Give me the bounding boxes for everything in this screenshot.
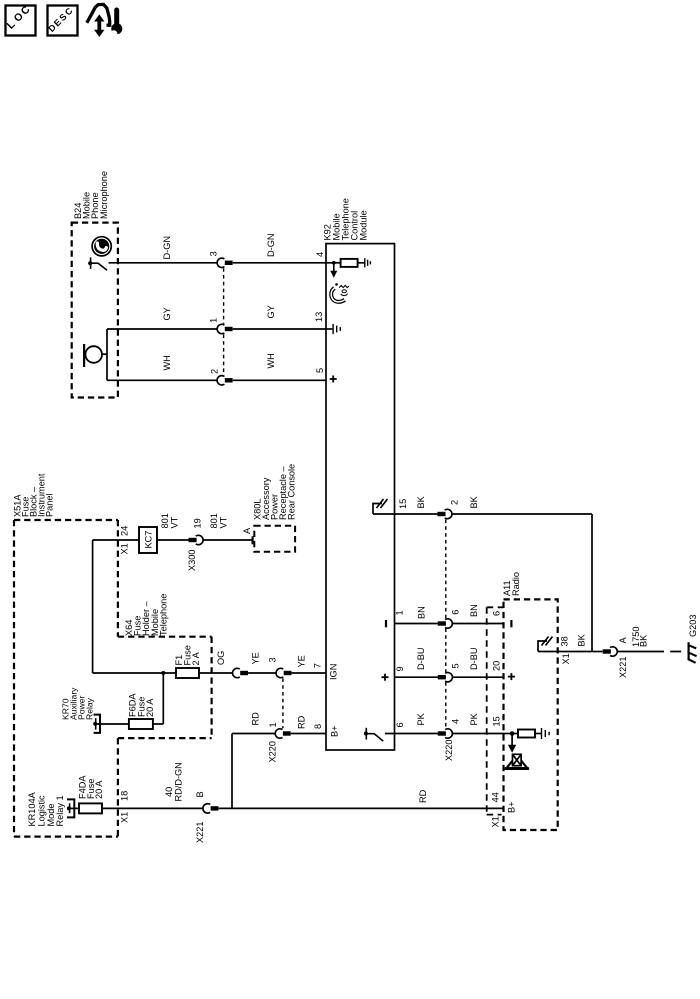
svg-text:1: 1 bbox=[395, 610, 405, 615]
connector X300 pin 19 bbox=[187, 518, 203, 571]
plus sign inside A11 (pin 20) bbox=[508, 673, 515, 680]
connector pin 3 (B24 pigtail) bbox=[209, 251, 233, 267]
svg-text:20: 20 bbox=[492, 661, 502, 671]
svg-text:X1: X1 bbox=[491, 816, 501, 827]
minus sign inside K92 (pin 1) bbox=[385, 620, 387, 627]
wire WH to K92 pin 5 bbox=[233, 353, 326, 380]
svg-text:4: 4 bbox=[451, 719, 461, 724]
phone icon in B24 bbox=[92, 237, 111, 256]
svg-text:KC7: KC7 bbox=[144, 531, 154, 549]
svg-text:GY: GY bbox=[266, 305, 276, 318]
svg-text:801: 801 bbox=[160, 513, 170, 528]
microphone switch in B24 bbox=[88, 257, 107, 270]
svg-text:6: 6 bbox=[395, 722, 405, 727]
svg-text:2: 2 bbox=[210, 369, 220, 374]
wire RD from X221 junction up to connector X220 pin 1 bbox=[232, 712, 275, 809]
wire YE to connector X220 pin 3 bbox=[248, 652, 276, 673]
wire D-BU to radio A11 pin 20 bbox=[452, 648, 503, 678]
svg-text:X1: X1 bbox=[561, 653, 571, 664]
svg-text:WH: WH bbox=[266, 353, 276, 368]
svg-text:X1: X1 bbox=[120, 812, 130, 823]
svg-text:YE: YE bbox=[297, 655, 307, 667]
svg-text:3: 3 bbox=[268, 657, 278, 662]
svg-text:18: 18 bbox=[120, 791, 130, 801]
dashed connector link (B24 pigtail) bbox=[223, 268, 225, 375]
connector X220 pin 2 bbox=[437, 500, 459, 519]
case ground symbol inside K92 (pin 15) bbox=[373, 499, 388, 514]
svg-text:801: 801 bbox=[209, 513, 219, 528]
wire WH from B24 to in-line connector bbox=[107, 355, 217, 380]
wire BK from connector to X221 pin A bbox=[452, 495, 592, 651]
wire BK from K92 pin 15 to connector X220 pin 2 bbox=[373, 495, 438, 514]
ground symbol inside K92 (pin 4) bbox=[365, 258, 371, 267]
svg-text:RD: RD bbox=[297, 715, 307, 729]
connector X220 pin 1 bbox=[268, 722, 291, 762]
svg-text:Panel: Panel bbox=[45, 494, 55, 518]
relay KR70 Auxiliary Power Relay contact bbox=[61, 687, 129, 733]
wire 801 VT from KC7 to X300 bbox=[157, 513, 189, 540]
switch symbol inside K92 (pin 6) bbox=[364, 728, 383, 741]
component X80L Accessory Power Receptacle Rear Console (dashed box) bbox=[252, 464, 296, 552]
svg-text:6: 6 bbox=[451, 610, 461, 615]
fuse F1 2 A bbox=[174, 645, 201, 678]
wire BK to connector X221 pin A bbox=[592, 651, 603, 653]
connector X220 pin 4 bbox=[438, 719, 461, 761]
svg-text:5: 5 bbox=[315, 368, 325, 373]
svg-text:A: A bbox=[242, 527, 252, 534]
svg-text:1: 1 bbox=[209, 318, 219, 323]
svg-text:GY: GY bbox=[162, 307, 172, 320]
svg-text:X300: X300 bbox=[187, 550, 197, 571]
svg-text:3: 3 bbox=[209, 251, 219, 256]
svg-text:15: 15 bbox=[398, 499, 408, 509]
dashed connector link X220 (pins 2-6-5-4) bbox=[445, 520, 447, 729]
wire D-GN from B24 switch to in-line connector bbox=[109, 236, 218, 263]
connector X1 strip of A11 Radio (dashed) bbox=[487, 607, 504, 827]
connector pin 1 (B24 pigtail) bbox=[209, 318, 233, 334]
svg-text:B: B bbox=[195, 791, 205, 797]
connector X220 pin 5 bbox=[438, 663, 461, 682]
connector X220 pin 6 bbox=[438, 610, 461, 629]
wire RD to K92 pin 8 B+ bbox=[291, 715, 340, 737]
svg-text:24: 24 bbox=[120, 526, 130, 536]
wire from X51A to KC7 bbox=[93, 526, 139, 673]
resistor inside A11 (pin 15) bbox=[504, 730, 542, 738]
svg-text:5: 5 bbox=[451, 663, 461, 668]
svg-text:Radio: Radio bbox=[511, 572, 521, 596]
svg-text:RD: RD bbox=[418, 789, 428, 803]
node junction at F1/F6DA branch bbox=[153, 671, 165, 724]
phone handset icon inside K92 bbox=[331, 283, 349, 302]
service lift icon bbox=[87, 4, 123, 37]
fuse F6DA 20 A bbox=[128, 693, 155, 729]
connector pin 2 (B24 pigtail) bbox=[210, 369, 233, 385]
svg-text:BN: BN bbox=[417, 606, 427, 619]
svg-text:38: 38 bbox=[560, 636, 570, 646]
wire GY to K92 pin 13 bbox=[233, 305, 326, 329]
arrow down to speaker inside A11 bbox=[508, 734, 516, 753]
relay KR104A Logistic Mode Relay 1 contact bbox=[27, 791, 79, 826]
wire PK from K92 pin 6 to connector X220 pin 4 bbox=[385, 712, 438, 733]
svg-text:VT: VT bbox=[219, 516, 229, 528]
svg-text:B+: B+ bbox=[507, 802, 517, 814]
wire BN to radio A11 pin 6 bbox=[452, 604, 503, 623]
svg-text:BN: BN bbox=[469, 604, 479, 617]
connector X221 pin A bbox=[603, 637, 628, 679]
resistor inside K92 (pin 4) bbox=[341, 259, 365, 267]
module K92 Mobile Telephone Control Module bbox=[323, 198, 395, 750]
wire YE to K92 pin 7 IGN bbox=[292, 655, 339, 680]
wire 801 VT from X300 to X80L pin A bbox=[203, 513, 253, 544]
svg-text:2 A: 2 A bbox=[191, 651, 201, 665]
microphone transducer in B24 bbox=[84, 329, 107, 380]
svg-text:BK: BK bbox=[469, 495, 479, 508]
wire 40 RD/D-GN from F4DA to connector X221 pin B bbox=[102, 762, 205, 823]
svg-text:40: 40 bbox=[164, 787, 174, 797]
svg-text:YE: YE bbox=[251, 652, 261, 664]
svg-text:Telephone: Telephone bbox=[158, 594, 168, 636]
svg-text:D-BU: D-BU bbox=[469, 648, 479, 670]
svg-text:Microphone: Microphone bbox=[99, 171, 109, 219]
wire BK from A11 pin 38 to X221 junction bbox=[538, 633, 592, 664]
wire BN from K92 pin 1 to connector X220 pin 6 bbox=[395, 606, 439, 623]
connector X221 pin B bbox=[195, 804, 218, 843]
svg-text:BK: BK bbox=[577, 633, 587, 646]
wire D-GN to K92 pin 4 bbox=[233, 234, 326, 263]
fuse block X51A Instrument Panel (dashed box) bbox=[13, 473, 118, 836]
ground G203 bbox=[688, 615, 698, 663]
svg-text:A: A bbox=[618, 637, 628, 644]
wire GY from B24 to in-line connector bbox=[107, 307, 217, 329]
svg-text:44: 44 bbox=[491, 792, 501, 802]
wire 1750 BK to ground G203 (dashed) bbox=[617, 627, 688, 652]
svg-text:WH: WH bbox=[162, 355, 172, 370]
svg-text:2: 2 bbox=[450, 500, 460, 505]
svg-text:RD/D-GN: RD/D-GN bbox=[174, 762, 184, 801]
node K92 pin 4 junction bbox=[326, 261, 341, 265]
minus sign inside A11 (pin 6) bbox=[510, 620, 512, 627]
dashed connector link X220 (pins 3-1) bbox=[282, 678, 284, 728]
node junction inside A11 (pin 15) bbox=[510, 731, 515, 736]
speaker symbol inside A11 bbox=[505, 754, 529, 768]
wire D-BU from K92 pin 9 to connector X220 pin 5 bbox=[395, 648, 439, 678]
svg-text:B+: B+ bbox=[330, 726, 340, 738]
DESC legend box bbox=[46, 5, 77, 35]
svg-text:X220: X220 bbox=[268, 741, 278, 762]
svg-text:G203: G203 bbox=[688, 615, 698, 637]
svg-text:PK: PK bbox=[469, 712, 479, 725]
connector X220 pin 3 bbox=[268, 657, 292, 677]
component A11 Radio (dashed box) bbox=[502, 572, 558, 830]
ground symbol inside K92 (pin 13) bbox=[326, 324, 340, 334]
svg-text:Rear Console: Rear Console bbox=[286, 464, 296, 520]
component KC7 bbox=[139, 527, 157, 553]
wire OG from F1 fuse to in-line connector bbox=[199, 651, 233, 673]
case ground symbol inside A11 (pin 38) bbox=[538, 637, 553, 652]
svg-text:20 A: 20 A bbox=[94, 780, 104, 799]
svg-text:20 A: 20 A bbox=[145, 698, 155, 717]
svg-text:RD: RD bbox=[251, 712, 261, 726]
fuse F4DA 20 A bbox=[78, 775, 105, 814]
svg-text:6: 6 bbox=[492, 611, 502, 616]
svg-text:BK: BK bbox=[416, 495, 426, 508]
svg-text:Relay 1: Relay 1 bbox=[55, 795, 65, 826]
svg-text:X220: X220 bbox=[444, 740, 454, 761]
svg-text:OG: OG bbox=[216, 651, 226, 665]
svg-text:4: 4 bbox=[315, 252, 325, 257]
ground symbol inside A11 bbox=[542, 728, 550, 739]
plus sign inside K92 (pin 5) bbox=[330, 376, 337, 383]
svg-text:D-GN: D-GN bbox=[162, 236, 172, 259]
svg-text:D-BU: D-BU bbox=[416, 648, 426, 670]
svg-text:D-GN: D-GN bbox=[266, 234, 276, 257]
svg-text:19: 19 bbox=[193, 518, 203, 528]
svg-text:8: 8 bbox=[313, 724, 323, 729]
arrow down from pin 4 node bbox=[330, 263, 337, 278]
svg-text:1: 1 bbox=[268, 722, 278, 727]
svg-text:X221: X221 bbox=[618, 657, 628, 678]
LOC legend box bbox=[5, 3, 36, 35]
svg-text:BK: BK bbox=[639, 634, 649, 647]
plus sign inside K92 (pin 9) bbox=[382, 674, 389, 681]
wire PK to radio A11 pin 15 bbox=[452, 712, 503, 733]
svg-text:PK: PK bbox=[416, 712, 426, 725]
svg-text:7: 7 bbox=[313, 663, 323, 668]
in-line connector (fuse holder pigtail) bbox=[232, 668, 248, 677]
svg-text:Module: Module bbox=[359, 210, 369, 240]
wire RD from X221 to A11 pin 44 B+ bbox=[219, 789, 517, 813]
wire from X51A feed to F1 fuse bbox=[93, 672, 176, 674]
svg-text:Relay: Relay bbox=[85, 697, 95, 720]
svg-text:IGN: IGN bbox=[329, 664, 339, 680]
svg-text:13: 13 bbox=[314, 312, 324, 322]
svg-text:15: 15 bbox=[492, 716, 502, 726]
component B24 Mobile Phone Microphone (dashed box) bbox=[72, 171, 118, 398]
svg-text:9: 9 bbox=[395, 666, 405, 671]
svg-text:X1: X1 bbox=[120, 543, 130, 554]
svg-text:VT: VT bbox=[170, 516, 180, 528]
svg-text:X221: X221 bbox=[195, 822, 205, 843]
fuse holder X64 Mobile Telephone (dashed box) bbox=[118, 594, 212, 739]
